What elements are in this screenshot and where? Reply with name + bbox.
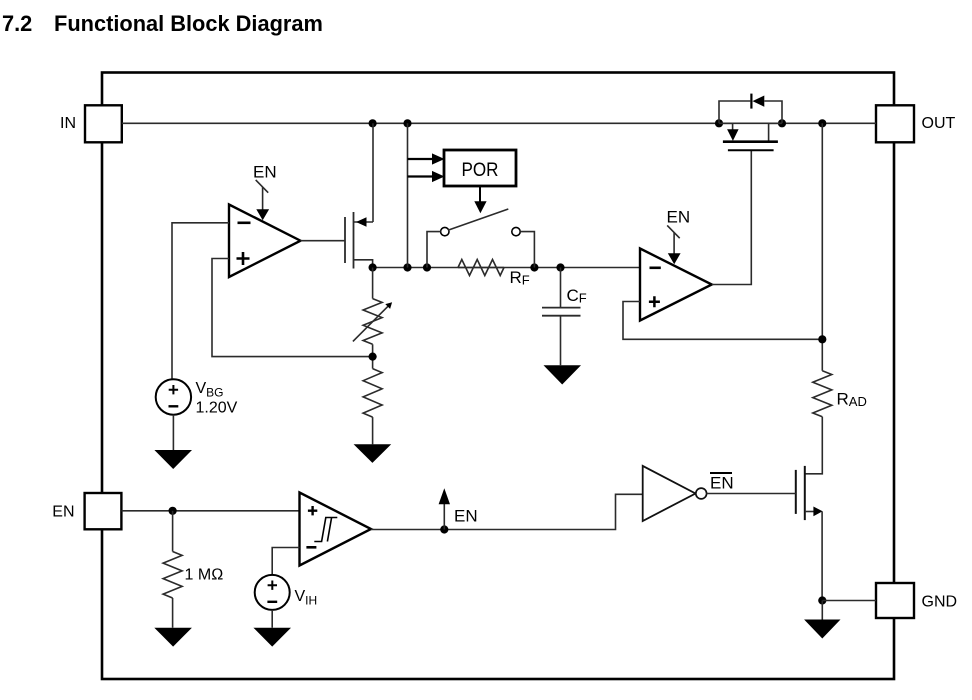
node dot feedback tap RAD top <box>818 335 826 343</box>
wire U2 plus input feedback <box>623 302 822 340</box>
wire schmitt output to inverter <box>371 494 643 529</box>
ground VBG <box>154 450 192 469</box>
svg-text:IN: IN <box>60 115 76 132</box>
node dot Q3 source / GND <box>818 596 826 604</box>
pin IN <box>60 105 122 142</box>
POR input branch wires <box>408 159 434 177</box>
EN enable arrow U1 <box>253 163 277 221</box>
svg-text:RF: RF <box>510 268 530 288</box>
ground 1 Mohm <box>154 628 192 647</box>
POR block <box>444 150 516 186</box>
svg-text:EN: EN <box>667 208 691 227</box>
IC boundary box <box>102 73 894 680</box>
svg-text:POR: POR <box>462 160 499 181</box>
title <box>2 11 323 36</box>
resistor R2 bottom of divider <box>363 369 382 445</box>
EN-bar net label <box>710 473 734 493</box>
wire OUT sense down to RAD <box>821 123 823 370</box>
wire U2 output up to pass gate <box>712 150 752 284</box>
svg-text:EN: EN <box>710 474 734 493</box>
inverter U4 <box>643 466 707 521</box>
svg-text:7.2: 7.2 <box>2 11 32 36</box>
POR output arrow to switch <box>474 186 486 213</box>
capacitor CF <box>542 268 587 366</box>
node dot switch right leg / RF right <box>530 263 538 271</box>
node dot pass FET right <box>778 119 786 127</box>
ground CF <box>544 365 582 384</box>
wire Q1 drain to top rail <box>372 123 374 222</box>
svg-text:EN: EN <box>253 163 277 182</box>
transistor Q3 active discharge <box>796 466 823 601</box>
switch S1 (bypass of RF) <box>427 209 534 268</box>
voltage source VIH <box>255 575 317 610</box>
schmitt trigger comparator U3 <box>300 493 372 566</box>
svg-text:1 MΩ: 1 MΩ <box>185 567 224 584</box>
POR input arrowheads <box>432 153 445 182</box>
wire VIH to schmitt minus <box>272 548 299 576</box>
wire U1 plus input (feedback from divider tap) <box>212 259 373 357</box>
node dot OUT sense <box>818 119 826 127</box>
wire Q3 source to ground <box>821 601 823 620</box>
svg-text:OUT: OUT <box>922 115 956 132</box>
voltage source VBG 1.20V <box>156 379 238 416</box>
node dot EN divider <box>169 507 177 515</box>
svg-text:CF: CF <box>567 286 587 306</box>
POR column wire <box>407 123 409 267</box>
ground divider <box>354 444 392 463</box>
node dot POR column on feedback rail <box>403 263 411 271</box>
svg-text:1.20V: 1.20V <box>196 400 238 417</box>
resistor RF <box>458 260 530 288</box>
ground Q3 <box>804 620 840 639</box>
wire to GND pin <box>822 600 876 602</box>
node dot switch left leg <box>423 263 431 271</box>
node dot CF tap <box>556 263 564 271</box>
node dot EN net <box>440 525 448 533</box>
svg-text:GND: GND <box>922 594 958 611</box>
node dot divider tap <box>369 344 377 368</box>
EN enable arrow U2 <box>667 208 691 265</box>
op-amp U2 output buffer <box>640 249 712 321</box>
body diode QP <box>719 94 782 124</box>
transistor Q1 (gain stage FET) <box>345 212 373 269</box>
node dot M1 drain on rail <box>369 119 377 127</box>
resistor 1 Mohm <box>163 511 223 628</box>
node dot Q1 source <box>369 263 377 271</box>
wire VBG to ground <box>172 415 174 450</box>
wire VIH to ground <box>271 610 273 628</box>
svg-text:Functional Block Diagram: Functional Block Diagram <box>54 11 323 36</box>
op-amp U1 error amplifier <box>229 205 301 278</box>
svg-text:EN: EN <box>454 507 478 526</box>
wire U1 output to Q1 gate <box>301 240 346 242</box>
svg-text:EN: EN <box>52 504 74 521</box>
wire feedback node rail <box>373 267 640 269</box>
pass transistor QP <box>719 123 782 150</box>
wire U1 minus input <box>172 223 229 379</box>
svg-text:VIH: VIH <box>295 588 318 608</box>
pin EN <box>52 493 121 529</box>
node dot pass FET left <box>715 119 723 127</box>
wire EN pin to schmitt <box>121 510 299 512</box>
variable resistor R1 top of divider <box>353 268 392 345</box>
pin GND <box>876 583 957 618</box>
EN net label arrow <box>439 488 478 529</box>
wire RAD to Q3 drain <box>805 417 823 474</box>
ground VIH <box>253 628 291 647</box>
wire inverter to Q3 gate <box>706 493 795 495</box>
svg-text:VBG: VBG <box>196 380 224 400</box>
svg-text:RAD: RAD <box>837 390 867 410</box>
node dot POR branch on rail <box>403 119 411 127</box>
resistor RAD <box>813 371 867 417</box>
wire IN to OUT top rail <box>122 122 876 124</box>
pin OUT <box>876 105 956 142</box>
